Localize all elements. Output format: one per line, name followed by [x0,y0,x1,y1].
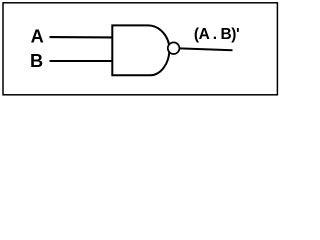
svg-text:B: B [30,51,43,71]
inversion bubble [168,42,180,54]
wire A input [50,36,113,38]
svg-text:A: A [31,27,44,47]
NAND gate U1 [112,25,169,75]
svg-text:(A . B)': (A . B)' [194,26,239,43]
wire output [180,48,233,50]
wire B input [50,60,113,62]
